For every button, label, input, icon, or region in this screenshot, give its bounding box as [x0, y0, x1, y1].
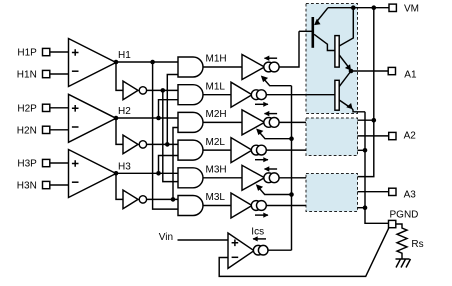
- terminal A3: [389, 188, 417, 200]
- terminal A2: [389, 131, 417, 142]
- wire PGND rail vertical: [365, 112, 389, 224]
- AND gate M2H: [178, 109, 227, 132]
- wire H3: [116, 172, 178, 174]
- wire A2 output: [358, 135, 389, 137]
- wire H2: [116, 117, 178, 119]
- svg-text:M3L: M3L: [206, 192, 226, 203]
- svg-text:H3: H3: [118, 162, 131, 173]
- svg-text:M3H: M3H: [206, 165, 227, 176]
- terminal PGND: [389, 209, 419, 227]
- AND gate M3L: [178, 192, 225, 215]
- driver M3H (buffer + current source): [242, 165, 279, 190]
- svg-text:VM: VM: [404, 4, 419, 15]
- svg-text:A3: A3: [404, 189, 417, 200]
- svg-text:H2P: H2P: [17, 104, 37, 115]
- wire M2H driver to box2: [279, 121, 306, 123]
- svg-text:PGND: PGND: [390, 209, 419, 220]
- wire /H2 vertical to M1H: [167, 75, 178, 145]
- wire M3L gate to driver: [203, 205, 231, 207]
- terminal H2P: [17, 104, 49, 115]
- driver M1L (buffer + current source): [231, 82, 269, 107]
- svg-text:Vin: Vin: [159, 232, 173, 243]
- svg-text:H1: H1: [118, 50, 131, 61]
- node A1: [349, 69, 354, 74]
- comparator U2 (Hall amp 2): [69, 94, 117, 142]
- wire H2 vertical to M1L: [159, 100, 179, 118]
- driver M2L (buffer + current source): [231, 138, 269, 163]
- wire Ics output to control bus: [268, 249, 292, 251]
- svg-text:Ics: Ics: [251, 227, 264, 238]
- output stage box 1 (A1 phase, transistors shown): [306, 4, 358, 114]
- transistor Q3 (low-side NPN): [335, 71, 353, 110]
- terminal H1P: [17, 48, 49, 59]
- wire H3 vertical to M2L: [159, 156, 179, 174]
- wire /H2: [147, 143, 178, 145]
- terminal H3N: [17, 181, 50, 192]
- junction H1 / vertical: [150, 60, 155, 65]
- wire M1H driver to Q1 base: [279, 31, 299, 67]
- comparator U3 (Hall amp 3): [69, 150, 117, 198]
- wire M3L driver to box3: [266, 205, 306, 207]
- terminal H1N: [17, 70, 50, 81]
- junction /H2 / vertical: [165, 142, 170, 147]
- junction VM/Q2 collector: [351, 5, 356, 10]
- op-amp Ics control: [228, 233, 254, 268]
- control arrow to M1 drivers: [261, 76, 292, 86]
- wire rung box2 top: [358, 119, 374, 121]
- driver M1H (buffer + current source): [242, 55, 279, 80]
- wire PGND feedback to Ics: [219, 228, 389, 277]
- junction /H1 / vertical: [161, 88, 166, 93]
- junction VM rail / box rung: [372, 118, 377, 123]
- wire Q3 emitter to PGND rail: [352, 109, 365, 112]
- wire H1N to comparator: [50, 73, 69, 75]
- junction PGND rail / box3 emitter: [363, 205, 368, 210]
- svg-text:M1H: M1H: [206, 54, 227, 65]
- resistor Rs: [396, 224, 424, 259]
- wire H2P to comparator: [50, 107, 69, 109]
- svg-text:H3P: H3P: [17, 159, 37, 170]
- inverter G1: [123, 81, 147, 100]
- wire VM rail: [328, 7, 389, 9]
- comparator U1 (Hall amp 1): [69, 39, 117, 87]
- inverter G3: [123, 190, 147, 209]
- wire A3 output: [358, 191, 389, 193]
- wire VM rail down to box3: [358, 8, 374, 177]
- AND gate M1L: [178, 81, 225, 104]
- svg-text:H1P: H1P: [17, 48, 37, 59]
- junction /H3 / vertical: [171, 197, 176, 202]
- control arrow to M3 drivers: [256, 184, 292, 194]
- driver M2H (buffer + current source): [242, 110, 279, 135]
- svg-text:Rs: Rs: [411, 239, 423, 250]
- svg-text:M2L: M2L: [206, 137, 226, 148]
- wire M3H driver to box3: [279, 177, 306, 179]
- junction PGND rail / box2 emitter: [363, 148, 368, 153]
- svg-text:M1L: M1L: [206, 81, 226, 92]
- wire M3H gate to driver: [203, 177, 242, 179]
- current source Ics: [251, 227, 268, 255]
- wire /H3: [147, 198, 178, 200]
- wire /H1 vertical to M3H: [163, 90, 178, 181]
- wire /H3 vertical to M2H: [173, 128, 178, 200]
- wire H2N to comparator: [50, 129, 69, 131]
- terminal H2N: [17, 126, 50, 137]
- wire M1L gate to driver: [203, 94, 231, 96]
- control arrow to M2 drivers: [256, 129, 291, 139]
- junction VM/right rail: [372, 5, 377, 10]
- inverter G2: [123, 135, 147, 154]
- driver M3L (buffer + current source): [231, 193, 269, 218]
- wire box2 emitter stub: [358, 149, 366, 151]
- transistor Q1 (PNP pre-driver): [299, 8, 335, 51]
- node H1: [114, 50, 132, 64]
- AND gate M3H: [178, 165, 227, 188]
- wire M2L driver to box2: [266, 149, 306, 151]
- wire H3P to comparator: [50, 162, 69, 164]
- svg-text:A1: A1: [404, 69, 417, 80]
- svg-text:H1N: H1N: [17, 70, 37, 81]
- AND gate M1H: [178, 54, 227, 77]
- wire Vin input: [178, 239, 229, 241]
- wire M2L gate to driver: [203, 149, 231, 151]
- svg-text:M2H: M2H: [206, 109, 227, 120]
- wire comparator1 to inverter1: [116, 62, 123, 90]
- output stage box 3 (A3 phase): [306, 174, 358, 212]
- AND gate M2L: [178, 137, 225, 160]
- wire H1: [116, 61, 178, 63]
- ground: [396, 259, 411, 268]
- junction control/M2: [289, 136, 294, 141]
- junction H2 / vertical: [156, 116, 161, 121]
- wire H1 vertical to M3L: [153, 62, 178, 209]
- wire comparator2 to inverter2: [116, 118, 123, 144]
- transistor Q2 (high-side NPN): [335, 8, 353, 71]
- control bus vertical from Ics: [291, 86, 293, 251]
- wire A1 output: [351, 70, 388, 72]
- svg-text:H2N: H2N: [17, 126, 37, 137]
- wire M1H gate to driver: [203, 66, 242, 68]
- wire comparator3 to inverter3: [116, 173, 123, 199]
- wire H1P to comparator: [50, 51, 69, 53]
- svg-text:H3N: H3N: [17, 181, 37, 192]
- wire M2H gate to driver: [203, 121, 242, 123]
- terminal H3P: [17, 159, 49, 170]
- wire M1L driver to Q3 base: [266, 94, 335, 96]
- junction H3 / vertical: [156, 171, 161, 176]
- node H2: [114, 106, 132, 120]
- terminal VM: [389, 4, 419, 15]
- svg-text:A2: A2: [404, 131, 417, 142]
- terminal A1: [388, 67, 417, 80]
- node H3: [114, 162, 132, 176]
- svg-text:H2: H2: [118, 106, 131, 117]
- wire box3 emitter stub: [358, 207, 366, 209]
- junction control/M3: [289, 192, 294, 197]
- output stage box 2 (A2 phase): [306, 118, 358, 156]
- wire H3N to comparator: [50, 184, 69, 186]
- wire /H1: [147, 89, 178, 91]
